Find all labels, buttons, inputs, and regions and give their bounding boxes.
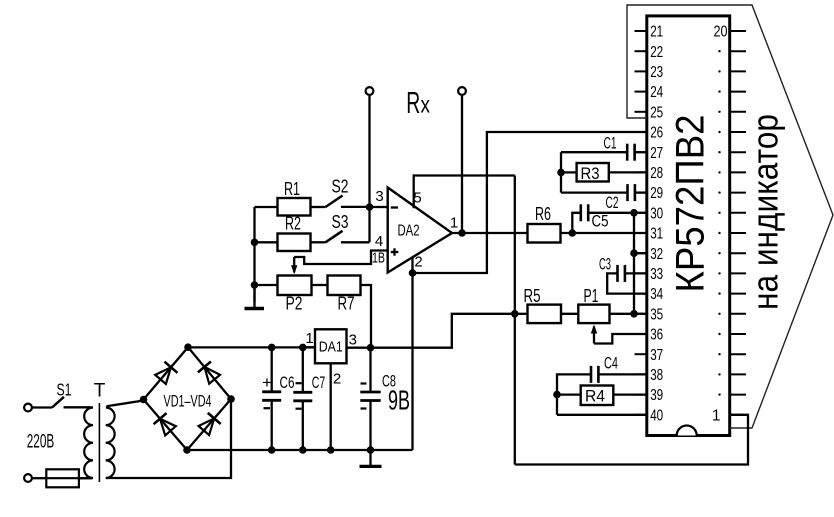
svg-text:23: 23 <box>650 64 663 81</box>
wire P2-R7 <box>312 284 328 286</box>
wire to C5 <box>572 213 580 233</box>
capacitor C4 <box>591 366 647 383</box>
svg-text:Т: Т <box>94 381 106 402</box>
diode VD3 <box>154 413 176 435</box>
IC DD1 KR572PV2 body <box>647 16 730 436</box>
svg-text:P2: P2 <box>286 294 303 314</box>
wire bottom to chip pin1 <box>515 415 748 465</box>
node bus pin30 <box>630 209 638 217</box>
label C8 <box>382 372 396 391</box>
node R6 out <box>569 229 577 237</box>
svg-text:9В: 9В <box>388 385 410 416</box>
label S2 <box>332 177 349 197</box>
node R4 left <box>553 391 561 399</box>
svg-text:S3: S3 <box>332 212 349 232</box>
wire R5 left <box>515 313 528 315</box>
svg-text:R1: R1 <box>284 179 300 199</box>
svg-text:36: 36 <box>650 327 663 344</box>
svg-text:S1: S1 <box>57 380 72 400</box>
svg-text:+: + <box>262 373 272 392</box>
label R2 <box>285 214 301 234</box>
label T <box>94 381 106 402</box>
resistor R4 <box>581 386 614 406</box>
wire DA1 in <box>303 346 315 348</box>
transformer T core <box>98 403 100 482</box>
bus vertical <box>633 213 635 314</box>
svg-text:S2: S2 <box>332 177 349 197</box>
wire P2 left <box>255 284 278 286</box>
label R1 <box>284 179 300 199</box>
label DA1 pin2 <box>333 371 341 388</box>
op-amp DA2 triangle <box>388 188 452 273</box>
label DA1 pin1 <box>305 330 313 347</box>
switch S3 <box>326 231 370 243</box>
capacitor C5 <box>581 204 647 221</box>
label 9V <box>388 385 410 416</box>
diode VD2 <box>198 362 220 384</box>
wire R1 left <box>255 206 278 208</box>
vertical C1-R3-C2 <box>560 152 562 192</box>
wire DA1 pin2 down <box>330 363 332 450</box>
svg-text:220В: 220В <box>27 431 55 453</box>
wire DA1 out <box>347 347 371 349</box>
resistor R1 <box>278 198 311 216</box>
svg-text:DA1: DA1 <box>319 339 343 356</box>
svg-text:C3: C3 <box>599 255 611 274</box>
wire R5-P1 <box>561 313 578 315</box>
capacitor C3 <box>618 265 647 282</box>
label C5 <box>592 212 609 231</box>
switch S2 <box>326 196 370 208</box>
wire C3 left to pin34 <box>607 273 647 293</box>
svg-text:37: 37 <box>650 347 663 364</box>
svg-text:2: 2 <box>333 371 341 388</box>
svg-text:32: 32 <box>650 246 663 263</box>
label VD1-VD4 <box>164 392 212 411</box>
svg-text:R4: R4 <box>585 387 605 406</box>
wire R2 right to S3 <box>311 241 326 243</box>
DA2 pin2 wire <box>411 258 413 451</box>
label C6 plus <box>262 373 272 392</box>
svg-text:3: 3 <box>349 332 357 349</box>
wire R3 right to pin28 <box>609 171 647 173</box>
wire P1 wiper to pin36 <box>594 334 647 344</box>
node junction pin3 <box>366 203 388 211</box>
label 1B <box>372 250 385 267</box>
label C7 minus top <box>296 382 302 384</box>
IC DA1 body <box>315 329 347 363</box>
terminal XS1 (Rx left probe) <box>366 87 374 207</box>
terminal mains top <box>24 404 52 412</box>
capacitor C8 <box>360 348 380 450</box>
transformer T secondary winding <box>106 408 115 479</box>
svg-text:33: 33 <box>650 266 663 283</box>
label pin5 <box>413 190 421 207</box>
wire +rail <box>188 346 315 348</box>
node P2 rail <box>251 281 259 289</box>
IC DD1 pin stubs <box>635 31 747 415</box>
label C7 <box>312 373 326 392</box>
label P2 <box>286 294 303 314</box>
wire DA1 out to R5 node <box>371 314 515 348</box>
node R2 rail <box>251 239 259 247</box>
bus arrow outline to indicator <box>627 5 833 428</box>
label C6 <box>280 373 295 392</box>
svg-text:38: 38 <box>650 367 663 384</box>
label pin1 <box>450 215 458 232</box>
label P1 <box>584 286 599 306</box>
label 220V <box>27 431 55 453</box>
node DA2 output <box>458 229 466 237</box>
node bridge top <box>184 343 192 351</box>
label DA2 <box>398 223 420 240</box>
svg-text:КР572ПВ2: КР572ПВ2 <box>669 115 713 293</box>
node bus pin35 <box>630 310 638 318</box>
svg-text:39: 39 <box>650 387 663 404</box>
DA2 pin5 wire <box>414 176 515 209</box>
wire secondary top to bridge <box>107 401 144 407</box>
svg-text:R2: R2 <box>285 214 301 234</box>
node C8 rail <box>367 446 375 454</box>
label C2 <box>606 193 619 212</box>
wire DA2 pin5 net vertical <box>514 176 516 465</box>
svg-text:29: 29 <box>650 185 663 202</box>
svg-text:R5: R5 <box>524 286 541 306</box>
label na indikator <box>745 114 786 310</box>
bridge diamond <box>144 347 232 450</box>
IC pin numbers left 21-40 <box>650 24 663 425</box>
node bridge bottom <box>183 446 191 454</box>
svg-text:27: 27 <box>650 145 663 162</box>
resistor R2 <box>278 234 311 252</box>
node bus pin32 <box>630 249 647 257</box>
potentiometer P2 <box>278 276 312 296</box>
IC pin number 20 <box>714 24 728 41</box>
svg-text:DA2: DA2 <box>398 223 420 240</box>
op-amp plus sign <box>391 248 399 255</box>
svg-text:P1: P1 <box>584 286 599 306</box>
svg-text:C1: C1 <box>604 134 617 153</box>
label C6 minus <box>264 407 271 409</box>
svg-text:22: 22 <box>650 44 663 61</box>
resistor R6 <box>528 224 561 243</box>
wire R4 right to pin39 <box>613 393 647 395</box>
wire R3 left <box>561 171 577 173</box>
svg-text:C7: C7 <box>312 373 326 392</box>
svg-text:21: 21 <box>650 24 663 41</box>
label pin3 <box>375 188 383 205</box>
node R5 left <box>511 310 519 318</box>
transformer T primary winding <box>79 407 93 478</box>
svg-text:40: 40 <box>650 407 663 424</box>
label C8 minus bottom <box>361 407 367 409</box>
node DA1 out <box>367 344 375 352</box>
svg-text:2: 2 <box>414 254 422 271</box>
capacitor C2 <box>628 184 647 201</box>
svg-text:25: 25 <box>650 104 663 121</box>
label Rx <box>406 85 430 120</box>
svg-text:34: 34 <box>650 286 663 303</box>
label DA1 pin3 <box>349 332 357 349</box>
label C1 <box>604 134 617 153</box>
svg-text:на индикатор: на индикатор <box>745 114 786 310</box>
svg-text:C6: C6 <box>280 373 295 392</box>
node C6 bottom <box>268 446 276 454</box>
node pin2 <box>409 269 417 277</box>
svg-text:C2: C2 <box>606 193 619 212</box>
switch S1 <box>52 397 90 408</box>
wire -rail <box>187 449 413 451</box>
wire R1 right to S2 <box>311 206 326 208</box>
svg-text:3: 3 <box>375 188 383 205</box>
svg-text:1: 1 <box>712 407 721 424</box>
label R7 <box>338 294 355 314</box>
svg-text:20: 20 <box>714 24 728 41</box>
svg-text:28: 28 <box>650 165 663 182</box>
terminal mains bottom <box>24 474 46 482</box>
ground bottom <box>360 450 382 466</box>
potentiometer P1 <box>578 305 609 324</box>
wire C4 left <box>557 374 591 414</box>
wire R2 left <box>255 241 278 243</box>
resistor R7 <box>328 276 361 296</box>
IC right pin ellipsis dots <box>718 50 720 396</box>
wire R4 left <box>557 393 581 395</box>
label pin4 <box>375 233 383 250</box>
svg-text:1В: 1В <box>372 250 385 267</box>
svg-text:1: 1 <box>305 330 313 347</box>
label R5 <box>524 286 541 306</box>
label C3 <box>599 255 611 274</box>
node bridge left <box>140 396 148 404</box>
wire S3 up to pin3 node <box>368 207 370 242</box>
capacitor C1 <box>627 144 647 161</box>
resistor R3 <box>577 163 609 183</box>
node C6 top <box>268 344 276 352</box>
node DA1 pin2 rail <box>327 446 335 454</box>
wire P2 wiper to DA2 pin4 <box>294 251 388 265</box>
svg-text:VD1–VD4: VD1–VD4 <box>164 392 212 411</box>
svg-text:35: 35 <box>650 306 663 323</box>
resistor R5 <box>528 305 562 324</box>
label C4 <box>604 354 618 373</box>
svg-text:R7: R7 <box>338 294 355 314</box>
svg-text:C5: C5 <box>592 212 609 231</box>
diode VD4 <box>199 413 221 435</box>
label C8 minus top <box>361 382 367 384</box>
left rail <box>253 207 255 302</box>
fuse FU1 <box>46 469 92 487</box>
wire C2 left <box>561 191 628 193</box>
svg-text:31: 31 <box>650 226 663 243</box>
svg-text:R3: R3 <box>581 164 600 183</box>
svg-text:R6: R6 <box>535 204 551 224</box>
svg-text:4: 4 <box>375 233 383 250</box>
svg-text:x: x <box>420 92 430 118</box>
node C7 bottom <box>299 446 307 454</box>
DA2 output wire <box>452 232 528 234</box>
wire C1 left <box>561 151 627 153</box>
node bridge right <box>227 395 235 403</box>
label KR572PV2 <box>669 115 713 293</box>
wire to pin40 <box>557 414 647 416</box>
wire pin2 to chip pin26 <box>413 132 647 273</box>
node C7 top <box>299 344 307 352</box>
wire R6 to chip pin31 <box>561 232 647 234</box>
op-amp minus sign <box>391 206 398 208</box>
IC pin number 1 <box>712 407 721 424</box>
svg-text:C4: C4 <box>604 354 618 373</box>
capacitor C7 <box>293 347 312 450</box>
ground left <box>245 285 265 309</box>
label pin2 <box>414 254 422 271</box>
svg-text:1: 1 <box>450 215 458 232</box>
svg-text:24: 24 <box>650 84 663 101</box>
label C7 minus bottom <box>296 408 302 410</box>
capacitor C6 <box>262 347 281 450</box>
label S3 <box>332 212 349 232</box>
wire P1 right to pin35 <box>610 313 647 315</box>
diode VD1 <box>155 362 177 384</box>
wire R7 right down to DA1 out <box>361 285 372 348</box>
label R6 <box>535 204 551 224</box>
P1 wiper arrow <box>591 325 597 344</box>
node R3 left <box>557 169 565 177</box>
wire secondary bottom to bridge <box>106 399 231 478</box>
svg-text:26: 26 <box>650 125 663 142</box>
label S1 <box>57 380 72 400</box>
P2 wiper arrow <box>291 257 297 274</box>
terminal XS2 (Rx right probe) <box>458 87 466 233</box>
svg-text:R: R <box>406 85 420 120</box>
svg-text:30: 30 <box>650 205 663 222</box>
